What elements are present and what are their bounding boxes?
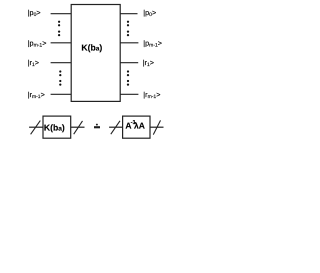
op box U K(ba) [71, 5, 120, 102]
vdots upper right [127, 21, 129, 37]
wire r(m-1) right [120, 93, 138, 95]
bus slash B [74, 121, 83, 134]
wire p(m-1) left [51, 42, 72, 44]
wire p0 left [51, 13, 72, 15]
doteq symbol [94, 124, 100, 129]
svg-text:K(ba): K(ba) [44, 122, 65, 132]
vdots upper left [58, 21, 60, 37]
svg-text:A-1λA: A-1λA [125, 120, 144, 131]
wire bus B (right of K box) [71, 126, 85, 128]
wire p0 right [120, 13, 137, 15]
bus slash C [111, 121, 120, 134]
svg-text:K(ba): K(ba) [81, 43, 102, 53]
wire r1 right [120, 62, 138, 64]
bus slash D [153, 120, 160, 134]
vdots lower left [59, 70, 61, 85]
wire bus A (left of K box) [29, 126, 43, 128]
op box K(ba) small [43, 116, 71, 138]
op box A^-1 lambda A [123, 116, 150, 138]
bus slash A [31, 121, 41, 135]
wire r(m-1) left [51, 93, 72, 95]
wire bus C (left of A box) [109, 126, 123, 128]
vdots lower right [127, 70, 129, 85]
wire r1 left [51, 62, 72, 64]
wire p(m-1) right [120, 42, 138, 44]
wire bus D (right of A box) [150, 126, 164, 128]
